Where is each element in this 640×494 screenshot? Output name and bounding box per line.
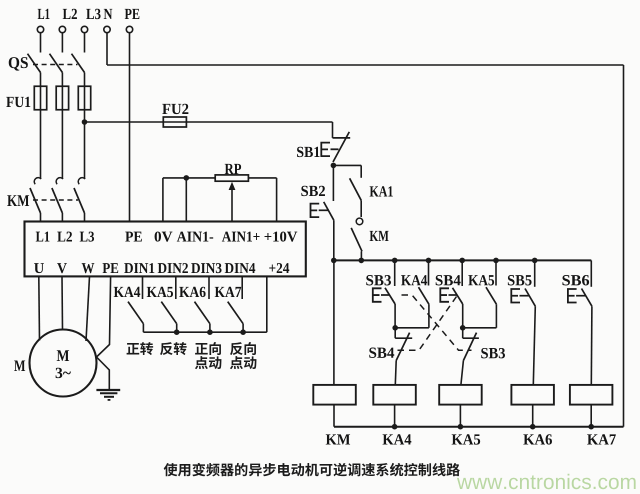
- node on control bus: [532, 258, 538, 264]
- SB2 label: [301, 186, 325, 196]
- KA4 branch label: [401, 275, 427, 285]
- node L3 to FU2 junction: [82, 119, 88, 125]
- relay contact KA4 (seal-in): [428, 260, 430, 285]
- relay contact KA4 blade: [128, 302, 143, 324]
- node coil on neutral bus: [392, 424, 398, 430]
- potentiometer RP label: [225, 164, 241, 174]
- SB5 actuator E: [511, 289, 520, 303]
- motor M 3~: [30, 330, 97, 397]
- SB5 label: [508, 275, 532, 285]
- wire N down: [106, 33, 108, 65]
- motor reference label M: [14, 361, 25, 371]
- wire RP right end to +10V: [276, 178, 278, 222]
- wire N right return down: [623, 65, 625, 427]
- node bus KA5: [174, 329, 180, 335]
- inverter bottom row terminal labels: [34, 263, 44, 273]
- node on control bus: [331, 258, 337, 264]
- SB1 label: [297, 147, 320, 157]
- label zhengzhuan (forward): [127, 343, 140, 355]
- fuse FU1 element at x=62.4: [61, 86, 63, 110]
- fuse FU2 label: [162, 104, 188, 114]
- wire QS to FU1 pole1: [40, 73, 42, 87]
- wire join SB3/KA4: [395, 327, 429, 329]
- switch QS pole 1 blade: [28, 54, 41, 73]
- switch QS linkage dashed: [33, 64, 78, 66]
- contactor contact KM fixed contact circle: [356, 218, 363, 225]
- wire FU1 to KM pole1: [40, 110, 42, 179]
- node bus KA7: [240, 329, 246, 335]
- node on control bus: [493, 258, 499, 264]
- label zhengxiang diandong (fwd jog): [195, 343, 208, 355]
- wire DIN common bus: [143, 331, 266, 333]
- coil KM: [313, 385, 356, 405]
- node SB4/KA5 join: [460, 325, 466, 331]
- relay contact KA4 stub from DIN1: [142, 276, 144, 299]
- relay contact KA5 stub from DIN2: [175, 276, 177, 299]
- wire FU2 line corner down to SB1: [332, 122, 334, 138]
- pushbutton SB2 (NO, start): [332, 165, 334, 201]
- wire L1 to QS: [40, 33, 42, 53]
- coil KA4: [373, 385, 416, 405]
- SB4 label: [436, 275, 461, 285]
- pushbutton SB3 NC interlock contact: [462, 328, 464, 338]
- node on control bus: [459, 258, 465, 264]
- caption text: [164, 463, 178, 476]
- mechanical linkage SB3 to SB3-NC dashed: [402, 295, 472, 350]
- mechanical linkage SB4 to SB4-NC dashed: [398, 297, 457, 351]
- coil label KA5: [452, 434, 481, 444]
- relay contact KA7 blade: [228, 302, 243, 324]
- KA5 branch label: [468, 275, 494, 285]
- SB2 actuator E: [311, 204, 320, 218]
- control bus wire: [333, 259, 591, 261]
- wire join SB4/KA5: [462, 327, 496, 329]
- wire junction to AIN1-: [185, 178, 187, 222]
- switch QS label: [9, 57, 28, 71]
- SB4 NC label: [369, 348, 394, 358]
- contact labels KA4 KA5 KA6 KA7: [114, 287, 141, 297]
- SB3 actuator E: [373, 288, 382, 302]
- wire QS to FU1 pole3: [84, 73, 86, 87]
- wire N horizontal to right side: [107, 64, 624, 66]
- node on control bus: [359, 258, 365, 264]
- relay contact KA5 blade: [161, 302, 176, 324]
- coil label KA4: [383, 434, 412, 444]
- KA1 label: [370, 186, 393, 196]
- node coil on neutral bus: [530, 424, 536, 430]
- node coil on neutral bus: [588, 424, 594, 430]
- SB6 label: [562, 275, 589, 285]
- contactor KM main contact pole 1: [34, 178, 41, 185]
- node AIN1- junction: [184, 175, 190, 181]
- frequency inverter U1 box: [25, 222, 306, 277]
- terminal L3: [81, 26, 87, 32]
- SB1 actuator E: [321, 143, 330, 157]
- contactor KM main contact pole 3: [78, 178, 85, 185]
- wire KA7 coil to bottom bus: [590, 405, 592, 427]
- wire L3 junction to FU2: [85, 121, 164, 123]
- wire PE to motor frame and ground: [97, 276, 111, 357]
- terminal N: [104, 26, 110, 32]
- bottom neutral bus wire: [334, 426, 624, 428]
- potentiometer RP body: [215, 175, 248, 181]
- terminal L2: [59, 26, 65, 32]
- ground symbol: [96, 389, 120, 391]
- coil KA7: [570, 385, 613, 405]
- fuse FU1 label: [6, 97, 30, 107]
- label fanxiang diandong (rev jog): [230, 342, 243, 355]
- SB3 NC label: [481, 348, 505, 358]
- switch QS pole 3 blade: [72, 54, 85, 73]
- wire RP left end to 0V: [162, 178, 164, 222]
- pushbutton SB6 (reverse jog): [590, 260, 592, 286]
- pushbutton SB5 (forward jog): [534, 260, 536, 286]
- wire FU2 to control circuit: [186, 121, 332, 123]
- node SB3/KA4 join: [392, 325, 398, 331]
- contactor KM main contact pole 2: [56, 178, 63, 185]
- wire KA6 coil to bottom bus: [532, 405, 534, 427]
- node on control bus: [392, 258, 398, 264]
- watermark www.cntronics.com: [457, 474, 636, 489]
- wire KM coil to bottom bus: [333, 405, 335, 427]
- terminal PE: [126, 26, 132, 32]
- coil KA5: [439, 385, 482, 405]
- wire KA5 coil to bottom bus: [459, 405, 461, 427]
- contactor KM label: [7, 195, 29, 206]
- fuse FU1 element at x=84.5: [84, 86, 86, 110]
- terminal L1: [37, 26, 43, 32]
- node below SB1: [331, 163, 337, 169]
- pushbutton SB3 (forward): [394, 260, 396, 286]
- relay contact KA6 stub from DIN3: [208, 276, 210, 299]
- wire FU1 to KM pole2: [61, 110, 63, 179]
- relay contact KA6 blade: [195, 302, 210, 324]
- switch QS pole 2 blade: [50, 54, 63, 73]
- wire L3 to QS: [84, 33, 86, 53]
- contactor KM linkage dashed: [33, 199, 78, 201]
- relay contact KA5 (seal-in): [495, 260, 497, 285]
- node coil on neutral bus: [458, 424, 464, 430]
- pushbutton SB4 NC interlock contact: [394, 328, 396, 338]
- node on control bus: [426, 258, 432, 264]
- label fanzhuan (reverse): [160, 342, 173, 355]
- wire RP horizontal: [163, 177, 277, 179]
- fuse FU2 element: [163, 121, 186, 123]
- coil KA6: [511, 385, 554, 405]
- wire L2 to QS: [61, 33, 63, 53]
- wire RP wiper to AIN1+ with arrow: [231, 190, 233, 222]
- terminal labels L1 L2 L3 N PE: [38, 9, 50, 19]
- contactor contact KM blade: [351, 228, 362, 251]
- coil label KM: [326, 434, 350, 444]
- SB4 actuator E: [440, 288, 449, 302]
- wire PE down to inverter: [129, 33, 131, 222]
- SB3 label: [366, 275, 391, 285]
- node bus KA6: [207, 329, 213, 335]
- pushbutton SB4 (reverse): [461, 260, 463, 286]
- inverter top row terminal labels: [36, 232, 50, 242]
- KM contact label: [370, 231, 389, 241]
- SB6 actuator E: [568, 289, 577, 303]
- wire QS to FU1 pole2: [61, 73, 63, 87]
- coil label KA7: [587, 434, 616, 444]
- wire V to motor: [61, 276, 64, 330]
- wire U to motor: [38, 276, 41, 340]
- wire SB1 node to KA1 branch: [333, 164, 361, 166]
- wire KM coil feed: [333, 260, 335, 385]
- relay contact KA7 stub from DIN4: [241, 276, 243, 299]
- coil label KA6: [523, 434, 552, 444]
- wire FU1 to KM pole3: [84, 110, 86, 179]
- relay contact KA1 (seal-in): [360, 165, 362, 177]
- wire W to motor: [86, 276, 90, 341]
- wire +24 down: [266, 276, 268, 332]
- wire KA4 coil to bottom bus: [394, 405, 396, 427]
- fuse FU1 element at x=40.5: [40, 86, 42, 110]
- pushbutton SB1 (NC, stop): [333, 137, 351, 139]
